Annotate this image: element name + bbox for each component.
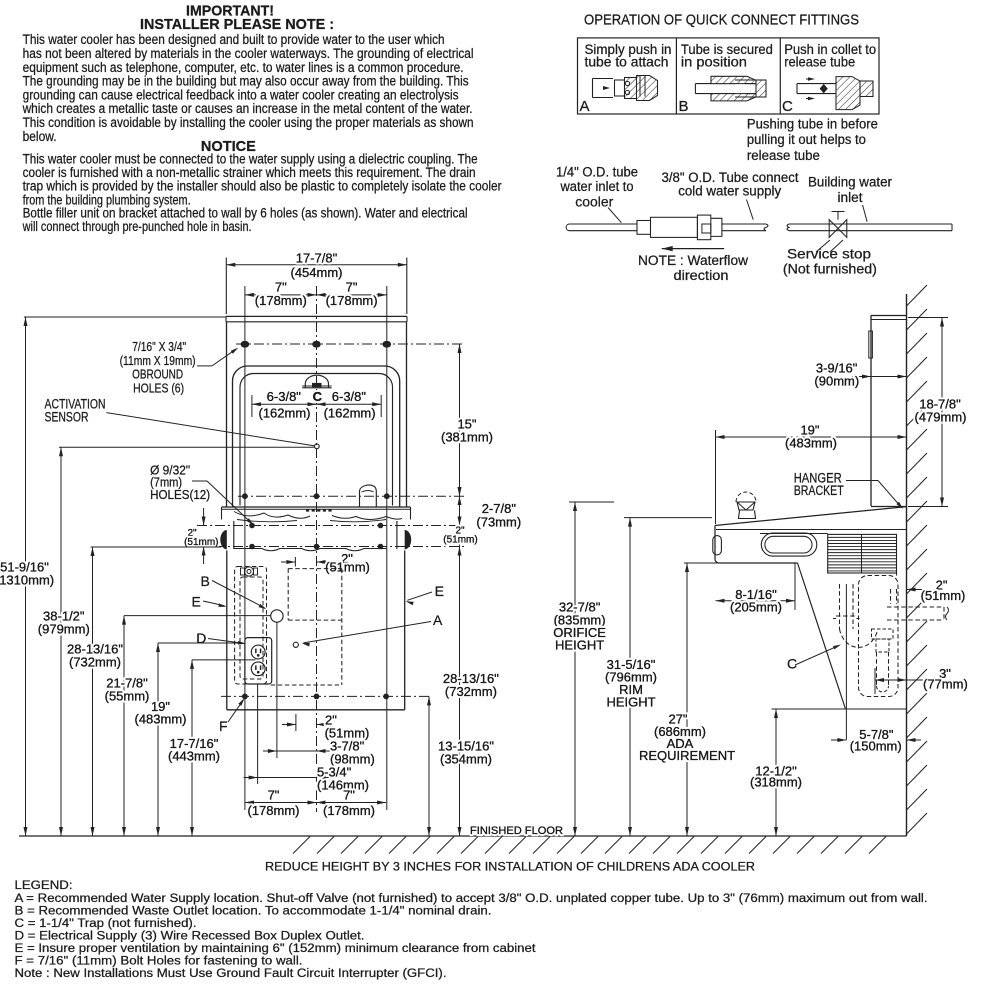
svg-text:has not been altered by materi: has not been altered by materials in the… xyxy=(23,46,474,61)
svg-text:release tube: release tube xyxy=(784,53,855,69)
svg-text:E: E xyxy=(435,583,444,599)
svg-text:(178mm): (178mm) xyxy=(247,803,299,818)
svg-text:(51mm): (51mm) xyxy=(443,535,477,546)
svg-text:(454mm): (454mm) xyxy=(290,265,342,280)
svg-text:HEIGHT: HEIGHT xyxy=(606,695,655,710)
svg-text:HOLES (6): HOLES (6) xyxy=(133,381,184,395)
svg-text:below.: below. xyxy=(23,129,57,144)
svg-text:HOLES(12): HOLES(12) xyxy=(150,488,210,502)
svg-text:REDUCE HEIGHT BY 3 INCHES FOR: REDUCE HEIGHT BY 3 INCHES FOR INSTALLATI… xyxy=(265,860,755,874)
svg-text:water inlet to: water inlet to xyxy=(560,179,634,194)
svg-text:(Not furnished): (Not furnished) xyxy=(783,262,877,277)
svg-text:A: A xyxy=(580,98,590,115)
svg-text:(162mm): (162mm) xyxy=(258,406,310,421)
svg-text:A: A xyxy=(433,612,443,628)
svg-text:(479mm): (479mm) xyxy=(914,410,966,425)
svg-text:inlet: inlet xyxy=(838,190,863,205)
svg-text:The grounding may be in the bu: The grounding may be in the building but… xyxy=(23,74,469,89)
svg-text:which creates a metallic taste: which creates a metallic taste or causes… xyxy=(22,101,473,116)
svg-text:D: D xyxy=(196,630,206,646)
svg-text:(77mm): (77mm) xyxy=(923,677,968,692)
svg-text:C: C xyxy=(313,389,323,404)
svg-text:6-3/8": 6-3/8" xyxy=(332,389,367,404)
svg-text:will connect through pre-punch: will connect through pre-punched hole in… xyxy=(22,219,252,234)
svg-text:6-3/8": 6-3/8" xyxy=(267,389,302,404)
svg-text:direction: direction xyxy=(674,268,729,283)
svg-text:HEIGHT: HEIGHT xyxy=(555,638,604,653)
svg-text:C: C xyxy=(787,656,797,672)
svg-text:7": 7" xyxy=(275,279,287,294)
svg-text:F: F xyxy=(219,718,228,734)
svg-text:(732mm): (732mm) xyxy=(445,684,497,699)
svg-text:(354mm): (354mm) xyxy=(440,752,492,767)
svg-text:(443mm): (443mm) xyxy=(168,748,220,763)
svg-text:1/4" O.D. tube: 1/4" O.D. tube xyxy=(556,164,638,179)
svg-text:LEGEND:: LEGEND: xyxy=(15,878,73,892)
svg-text:tube to attach: tube to attach xyxy=(585,53,669,69)
svg-text:B: B xyxy=(201,573,210,589)
svg-text:Note : New Installations Must: Note : New Installations Must Use Ground… xyxy=(15,966,447,980)
svg-text:7/16" X 3/4": 7/16" X 3/4" xyxy=(132,340,186,354)
svg-text:(381mm): (381mm) xyxy=(441,430,493,445)
svg-text:(55mm): (55mm) xyxy=(105,689,150,704)
svg-text:(162mm): (162mm) xyxy=(324,406,376,421)
svg-text:(178mm): (178mm) xyxy=(323,803,375,818)
svg-text:(979mm): (979mm) xyxy=(38,622,90,637)
svg-text:OPERATION OF QUICK CONNECT FIT: OPERATION OF QUICK CONNECT FITTINGS xyxy=(584,12,859,29)
svg-text:OBROUND: OBROUND xyxy=(132,368,183,382)
svg-text:NOTE : Waterflow: NOTE : Waterflow xyxy=(638,253,748,268)
svg-text:REQUIREMENT: REQUIREMENT xyxy=(639,748,735,763)
svg-text:7": 7" xyxy=(268,788,280,803)
svg-text:This water cooler has been des: This water cooler has been designed and … xyxy=(23,32,445,47)
svg-text:(73mm): (73mm) xyxy=(476,514,521,529)
svg-text:(483mm): (483mm) xyxy=(134,712,186,727)
svg-text:FINISHED FLOOR: FINISHED FLOOR xyxy=(470,825,563,837)
svg-text:cooler: cooler xyxy=(575,195,614,210)
svg-text:This condition is avoidable by: This condition is avoidable by installin… xyxy=(23,115,474,130)
svg-text:grounding can cause electrical: grounding can cause electrical feedback … xyxy=(23,87,459,102)
svg-text:equipment such as telephone, c: equipment such as telephone, computer, e… xyxy=(23,60,464,75)
svg-text:cold water supply: cold water supply xyxy=(678,184,781,199)
svg-text:Pushing tube in before: Pushing tube in before xyxy=(747,117,878,132)
svg-text:in position: in position xyxy=(681,53,747,69)
svg-text:(150mm): (150mm) xyxy=(850,738,902,753)
svg-text:(205mm): (205mm) xyxy=(730,600,782,615)
svg-text:SENSOR: SENSOR xyxy=(45,409,89,424)
svg-text:17-7/8": 17-7/8" xyxy=(296,250,338,265)
svg-text:INSTALLER PLEASE NOTE :: INSTALLER PLEASE NOTE : xyxy=(140,16,334,33)
svg-text:(178mm): (178mm) xyxy=(255,293,307,308)
svg-text:release tube: release tube xyxy=(747,148,820,163)
svg-text:7": 7" xyxy=(343,788,355,803)
svg-text:(318mm): (318mm) xyxy=(750,775,802,790)
svg-text:(51mm): (51mm) xyxy=(921,588,966,603)
svg-text:pulling it out helps to: pulling it out helps to xyxy=(747,132,866,147)
svg-text:(483mm): (483mm) xyxy=(785,436,837,451)
svg-text:(51mm): (51mm) xyxy=(325,560,370,575)
svg-text:Service stop: Service stop xyxy=(787,247,871,262)
svg-text:E: E xyxy=(192,594,201,610)
svg-text:C: C xyxy=(782,98,793,115)
svg-text:B: B xyxy=(679,98,689,115)
svg-text:(1310mm): (1310mm) xyxy=(0,573,54,588)
svg-text:(90mm): (90mm) xyxy=(814,374,859,389)
svg-text:Building water: Building water xyxy=(808,175,892,190)
svg-text:7": 7" xyxy=(346,279,358,294)
svg-text:(11mm X 19mm): (11mm X 19mm) xyxy=(120,354,196,368)
svg-text:(732mm): (732mm) xyxy=(69,655,121,670)
svg-text:(178mm): (178mm) xyxy=(326,293,378,308)
svg-text:BRACKET: BRACKET xyxy=(794,483,844,498)
